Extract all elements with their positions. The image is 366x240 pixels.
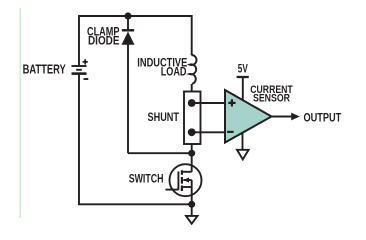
- output arrowhead: [291, 113, 300, 121]
- 5V supply: [237, 77, 249, 101]
- wire diode return: [128, 152, 192, 154]
- label SWITCH: [129, 171, 164, 185]
- wire sense top to op-amp +: [192, 102, 225, 104]
- op-amp current sensor: [225, 90, 272, 143]
- shunt terminal top (sense tap): [188, 99, 196, 107]
- svg-text:OUTPUT: OUTPUT: [304, 110, 342, 124]
- label OUTPUT: [304, 110, 342, 124]
- label CLAMP DIODE: [87, 24, 120, 47]
- label BATTERY: [23, 63, 67, 77]
- ground op-amp: [237, 132, 249, 159]
- switch MOSFET: [166, 164, 202, 204]
- ground switch: [186, 204, 198, 223]
- clamp diode: [122, 14, 135, 153]
- shunt terminal bottom (sense tap): [188, 128, 196, 136]
- svg-text:DIODE: DIODE: [88, 33, 120, 47]
- svg-text:SENSOR: SENSOR: [253, 92, 290, 104]
- svg-text:5V: 5V: [238, 62, 249, 76]
- wire sense bottom to op-amp -: [192, 131, 225, 133]
- junction bottom rail / source / ground: [188, 201, 195, 208]
- svg-text:SWITCH: SWITCH: [129, 171, 164, 185]
- label 5V: [238, 62, 249, 76]
- wire top rail: [79, 15, 192, 17]
- wire shunt to switch drain: [191, 144, 193, 172]
- junction top rail / clamp diode: [124, 12, 131, 19]
- wire bottom rail: [78, 203, 192, 205]
- wire right rail top: [191, 15, 193, 56]
- wire output: [272, 116, 293, 118]
- label INDUCTIVE LOAD: [137, 55, 187, 78]
- label SHUNT: [148, 110, 180, 124]
- junction shunt/switch node: [188, 150, 195, 157]
- inductive load coil: [190, 55, 197, 84]
- wire coil to shunt: [191, 84, 193, 92]
- svg-text:LOAD: LOAD: [161, 64, 187, 78]
- label CURRENT SENSOR: [250, 84, 293, 105]
- decorative green edge line: [20, 8, 21, 218]
- svg-text:SHUNT: SHUNT: [148, 110, 180, 124]
- shunt body: [184, 92, 201, 145]
- wire left rail battery bottom: [78, 74, 80, 204]
- wire left rail battery top: [78, 15, 80, 66]
- battery: [72, 59, 89, 79]
- svg-text:BATTERY: BATTERY: [23, 63, 67, 77]
